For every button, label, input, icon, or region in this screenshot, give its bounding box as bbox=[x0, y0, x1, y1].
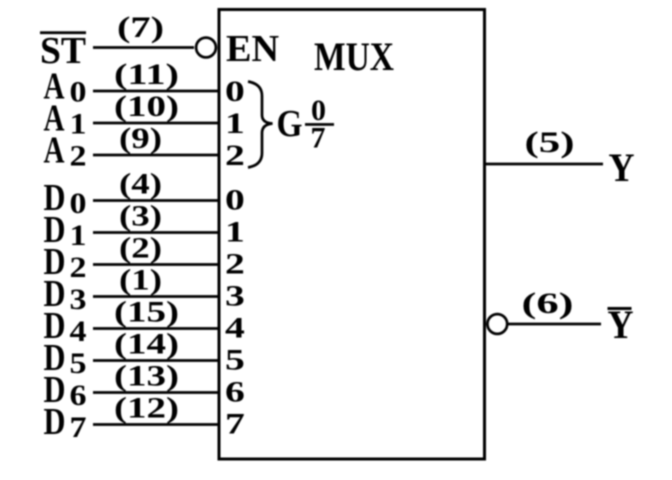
svg-text:(1): (1) bbox=[119, 264, 162, 297]
wire A2 input bbox=[93, 154, 220, 157]
wire D7 input bbox=[93, 423, 220, 426]
signal name D0 bbox=[44, 177, 87, 220]
signal name D7 bbox=[44, 401, 87, 444]
EN inversion bubble bbox=[196, 38, 216, 58]
svg-text:3: 3 bbox=[225, 279, 245, 312]
fraction bar bbox=[305, 123, 334, 126]
svg-text:Y: Y bbox=[609, 145, 635, 190]
svg-text:7: 7 bbox=[70, 411, 87, 444]
svg-text:2: 2 bbox=[70, 251, 87, 284]
signal name D3 bbox=[44, 273, 87, 316]
signal name Ybar (overline) bbox=[608, 302, 634, 347]
svg-text:1: 1 bbox=[70, 108, 87, 141]
svg-text:(7): (7) bbox=[117, 11, 164, 44]
svg-text:(13): (13) bbox=[114, 360, 179, 393]
svg-text:6: 6 bbox=[225, 375, 245, 408]
signal name D1 bbox=[44, 209, 87, 252]
svg-text:5: 5 bbox=[70, 347, 87, 380]
signal name D6 bbox=[44, 369, 87, 412]
brace grouping select inputs G0/7 bbox=[248, 82, 273, 168]
svg-text:(2): (2) bbox=[119, 232, 162, 265]
signal name A1 bbox=[44, 98, 87, 141]
svg-text:(4): (4) bbox=[119, 168, 162, 201]
svg-text:2: 2 bbox=[225, 247, 245, 280]
wire A0 input bbox=[93, 90, 220, 93]
svg-text:5: 5 bbox=[225, 343, 245, 376]
svg-text:4: 4 bbox=[225, 311, 245, 344]
signal name ST (active low, overline) bbox=[40, 30, 86, 72]
wire A1 input bbox=[93, 122, 220, 125]
svg-text:(9): (9) bbox=[119, 122, 162, 155]
svg-text:D: D bbox=[44, 401, 66, 443]
svg-text:MUX: MUX bbox=[314, 34, 394, 79]
wire D2 input bbox=[93, 263, 220, 266]
svg-text:(15): (15) bbox=[114, 296, 179, 329]
signal name A2 bbox=[44, 130, 87, 173]
wire D6 input bbox=[93, 391, 220, 394]
wire Ybar output bbox=[509, 323, 602, 326]
wire Y output bbox=[485, 163, 604, 166]
wire D0 input bbox=[93, 199, 220, 202]
svg-text:(6): (6) bbox=[522, 287, 574, 320]
svg-text:(14): (14) bbox=[114, 328, 179, 361]
svg-text:(5): (5) bbox=[525, 126, 575, 159]
svg-text:7: 7 bbox=[311, 122, 326, 155]
svg-text:A: A bbox=[44, 130, 65, 172]
svg-text:3: 3 bbox=[70, 283, 87, 316]
svg-text:0: 0 bbox=[225, 75, 245, 108]
signal name D5 bbox=[44, 337, 87, 380]
svg-text:(10): (10) bbox=[114, 90, 179, 123]
svg-text:2: 2 bbox=[225, 139, 245, 172]
signal name D4 bbox=[44, 305, 87, 348]
Ybar inversion bubble bbox=[487, 314, 507, 334]
wire D5 input bbox=[93, 359, 220, 362]
svg-text:(11): (11) bbox=[114, 58, 179, 91]
wire D4 input bbox=[93, 327, 220, 330]
svg-text:7: 7 bbox=[225, 407, 245, 440]
signal name A0 bbox=[44, 66, 87, 109]
svg-text:(3): (3) bbox=[119, 200, 162, 233]
svg-text:1: 1 bbox=[225, 107, 245, 140]
svg-text:0: 0 bbox=[225, 183, 245, 216]
svg-text:0: 0 bbox=[70, 76, 87, 109]
wire D1 input bbox=[93, 231, 220, 234]
svg-text:1: 1 bbox=[225, 215, 245, 248]
signal name D2 bbox=[44, 241, 87, 284]
multiplexer U1 body outline (MUX) bbox=[219, 10, 485, 460]
svg-text:G: G bbox=[277, 103, 303, 145]
svg-text:EN: EN bbox=[226, 28, 279, 70]
svg-text:0: 0 bbox=[70, 187, 87, 220]
wire D3 input bbox=[93, 295, 220, 298]
svg-text:2: 2 bbox=[70, 140, 87, 173]
wire ST input bbox=[93, 46, 194, 49]
svg-text:6: 6 bbox=[70, 379, 87, 412]
svg-text:4: 4 bbox=[70, 315, 87, 348]
svg-text:(12): (12) bbox=[114, 392, 179, 425]
svg-text:1: 1 bbox=[70, 219, 87, 252]
